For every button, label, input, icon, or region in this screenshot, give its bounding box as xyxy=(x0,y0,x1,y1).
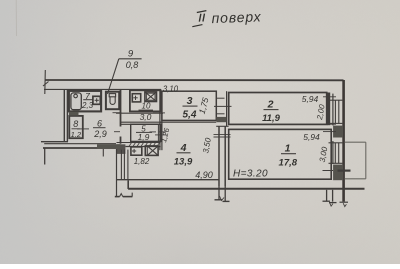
svg-text:2,9: 2,9 xyxy=(93,129,107,139)
svg-text:2,3: 2,3 xyxy=(81,101,94,110)
svg-text:2: 2 xyxy=(267,99,274,111)
svg-text:11,9: 11,9 xyxy=(262,113,281,124)
svg-text:5,4: 5,4 xyxy=(183,110,197,121)
svg-text:7: 7 xyxy=(85,91,90,101)
svg-text:3,0: 3,0 xyxy=(140,112,152,122)
svg-text:1,82: 1,82 xyxy=(134,157,150,166)
svg-text:5,94: 5,94 xyxy=(302,94,319,104)
svg-text:1,9: 1,9 xyxy=(138,132,150,142)
svg-text:13,9: 13,9 xyxy=(174,156,193,167)
svg-text:6: 6 xyxy=(97,118,102,128)
svg-text:3: 3 xyxy=(187,95,193,107)
svg-text:4,90: 4,90 xyxy=(195,170,213,180)
svg-text:10: 10 xyxy=(142,102,151,111)
svg-text:поверх: поверх xyxy=(211,8,262,26)
svg-text:17,8: 17,8 xyxy=(279,157,298,168)
svg-text:1.2: 1.2 xyxy=(71,130,82,139)
svg-text:4: 4 xyxy=(180,142,187,154)
svg-text:1: 1 xyxy=(285,143,291,155)
svg-text:8: 8 xyxy=(73,119,78,129)
svg-text:H=3.20: H=3.20 xyxy=(233,169,268,180)
svg-text:5,94: 5,94 xyxy=(303,132,320,142)
svg-text:3,10: 3,10 xyxy=(163,84,179,93)
svg-text:9: 9 xyxy=(128,49,134,60)
svg-text:0,8: 0,8 xyxy=(126,60,139,70)
